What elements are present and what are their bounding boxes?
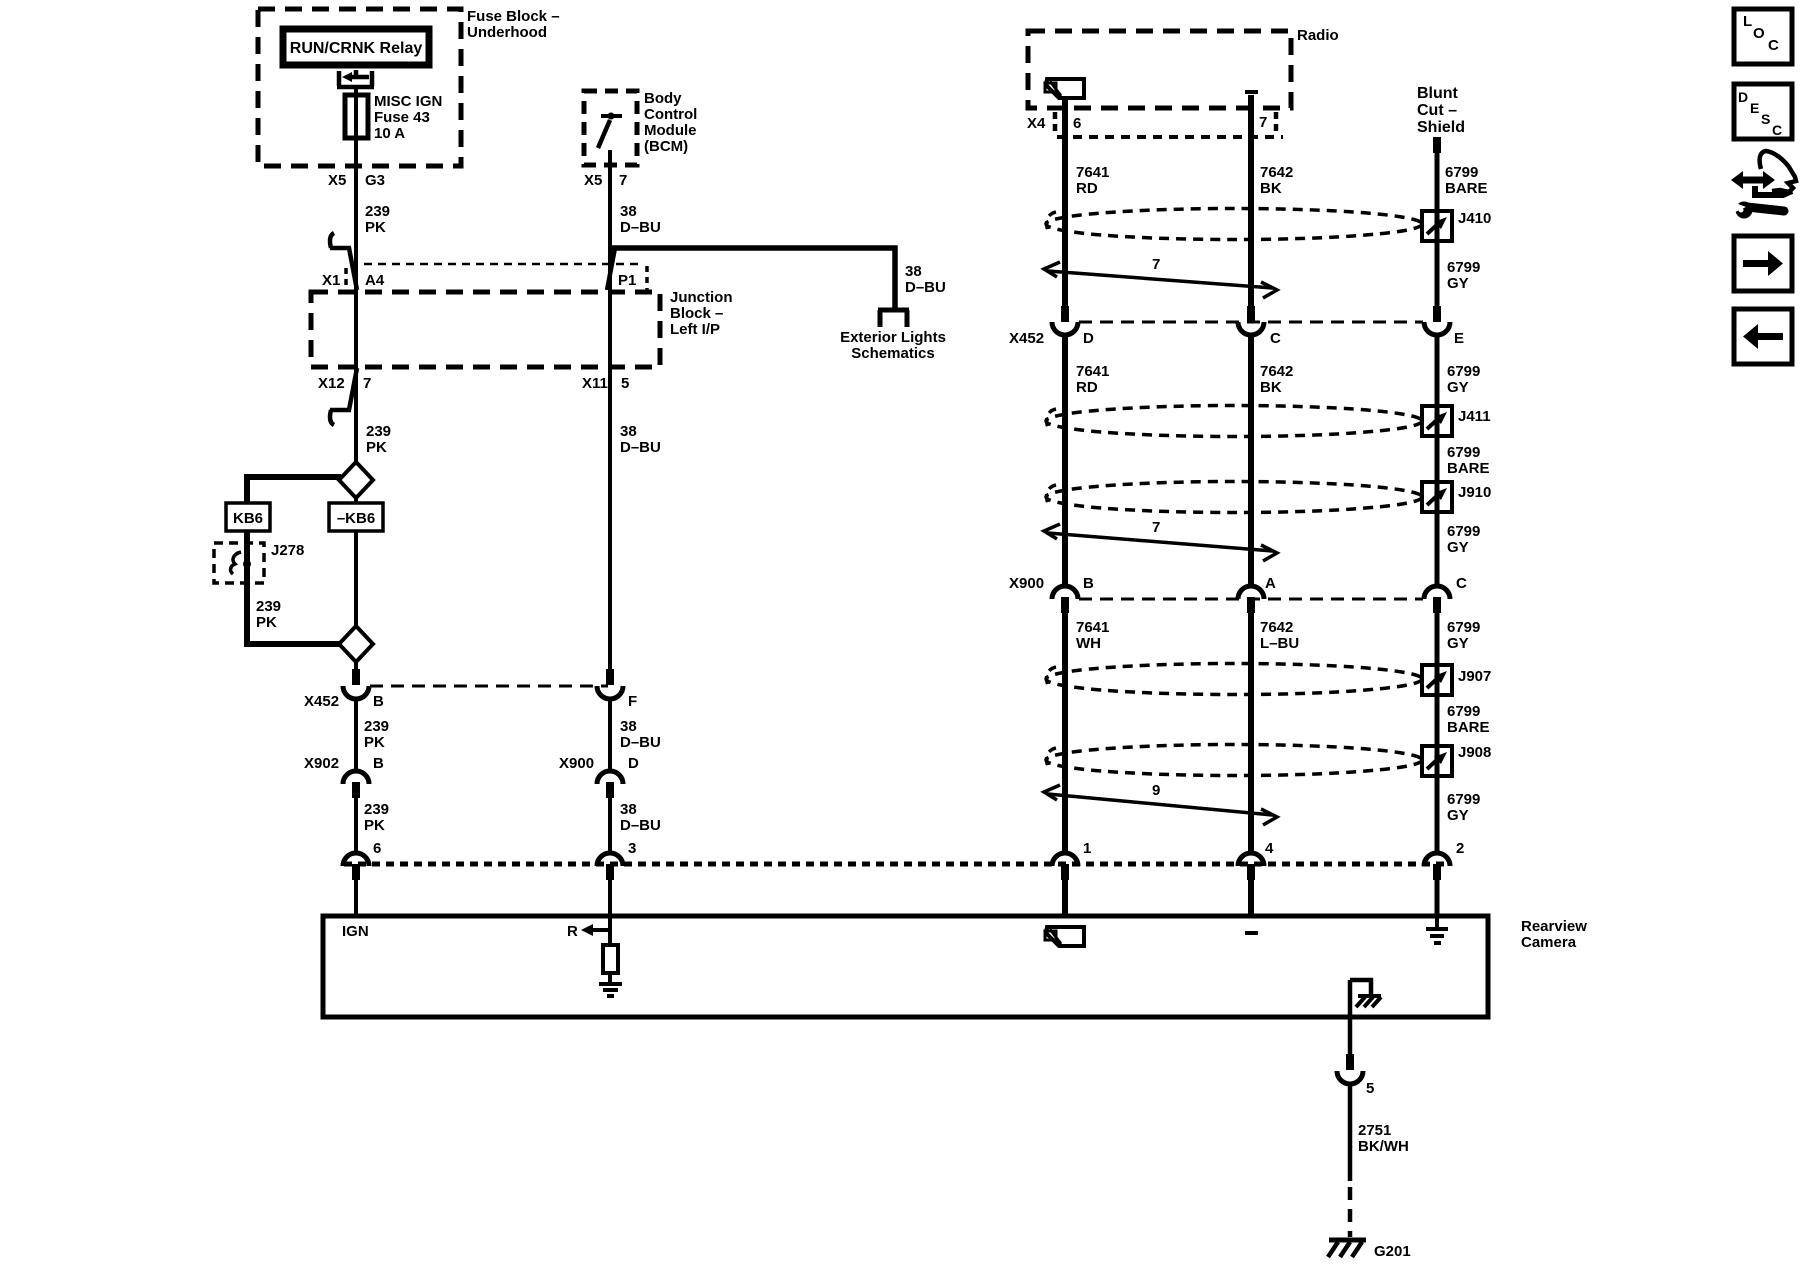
label 239 PK xyxy=(365,203,390,236)
label 6799 GY xyxy=(1447,523,1480,556)
svg-text:BARE: BARE xyxy=(1447,460,1490,477)
wire pin1 to camera box xyxy=(1062,880,1068,916)
svg-text:Junction: Junction xyxy=(670,289,733,306)
wire fuse to diamond (239 PK) xyxy=(354,138,358,463)
label 7641 RD xyxy=(1076,363,1109,396)
icon wrench xyxy=(1733,202,1784,219)
svg-text:KB6: KB6 xyxy=(233,510,263,527)
icon box LOC xyxy=(1734,9,1792,64)
crossover arrow 9 xyxy=(1044,785,1277,825)
svg-text:RD: RD xyxy=(1076,180,1098,197)
rearview camera box xyxy=(323,916,1488,1017)
label 6799 BARE xyxy=(1445,164,1488,197)
svg-text:7642: 7642 xyxy=(1260,164,1293,181)
svg-text:6799: 6799 xyxy=(1447,259,1480,276)
wire chassis ground down xyxy=(1348,980,1353,1054)
svg-text:E: E xyxy=(1750,100,1759,116)
ground symbol under resistor xyxy=(599,984,622,996)
svg-text:Fuse 43: Fuse 43 xyxy=(374,109,430,126)
svg-text:PK: PK xyxy=(365,219,386,236)
svg-text:L–BU: L–BU xyxy=(1260,635,1299,652)
connector X452 E xyxy=(1433,306,1441,322)
wire BCM down xyxy=(608,150,612,669)
wire KB6 branch bottom to diamond xyxy=(247,641,341,644)
svg-text:X11: X11 xyxy=(582,375,608,392)
svg-text:S: S xyxy=(1761,111,1770,127)
camera icon in camera box xyxy=(1045,927,1084,946)
svg-text:C: C xyxy=(1772,122,1782,138)
label P1 xyxy=(618,272,636,289)
svg-text:6799: 6799 xyxy=(1447,523,1480,540)
svg-text:IGN: IGN xyxy=(342,923,369,940)
wire pin2 to camera box xyxy=(1435,880,1440,916)
icon box arrow left xyxy=(1734,309,1792,364)
svg-text:BK: BK xyxy=(1260,379,1282,396)
svg-text:BARE: BARE xyxy=(1445,180,1488,197)
svg-text:X452: X452 xyxy=(1009,330,1044,347)
label 38 D-BU xyxy=(620,423,661,456)
twisted pair ellipse J410 xyxy=(1046,209,1422,240)
svg-text:(BCM): (BCM) xyxy=(644,138,688,155)
svg-text:B: B xyxy=(373,693,384,710)
svg-text:Body: Body xyxy=(644,90,682,107)
dotted line X1 to P1 xyxy=(350,263,644,266)
label X5 7 xyxy=(584,172,627,189)
svg-text:PK: PK xyxy=(364,734,385,751)
BCM switch symbol xyxy=(601,114,622,118)
wire 7642 BK X452 to X900 xyxy=(1248,334,1254,586)
label 6799 GY xyxy=(1447,259,1480,292)
label X4 6 7 xyxy=(1027,114,1267,132)
svg-text:10 A: 10 A xyxy=(374,125,405,142)
label J910 xyxy=(1458,484,1491,501)
label 6799 GY xyxy=(1447,791,1480,824)
splice diamond S2 xyxy=(339,626,373,662)
svg-text:3: 3 xyxy=(628,840,636,857)
twisted pair ellipse J908 xyxy=(1046,745,1422,776)
connector X902 B female cap xyxy=(343,771,369,784)
icon box arrow right xyxy=(1734,236,1792,291)
svg-text:7: 7 xyxy=(1152,256,1160,273)
label 6799 BARE xyxy=(1447,703,1490,736)
svg-text:6: 6 xyxy=(373,840,381,857)
wire 38 D-BU F to D xyxy=(608,698,612,771)
svg-text:7: 7 xyxy=(1259,114,1267,131)
svg-text:Control: Control xyxy=(644,106,697,123)
dashed wire to G201 xyxy=(1348,1187,1353,1237)
splice J278 box xyxy=(214,543,264,583)
svg-text:7642: 7642 xyxy=(1260,363,1293,380)
svg-text:X900: X900 xyxy=(559,755,594,772)
R arrow xyxy=(589,928,611,932)
svg-text:6799: 6799 xyxy=(1447,619,1480,636)
svg-text:5: 5 xyxy=(1366,1080,1374,1097)
svg-text:A4: A4 xyxy=(365,272,385,289)
label X1 A4 xyxy=(322,272,385,289)
connector pin 4 cap xyxy=(1238,853,1264,866)
svg-text:E: E xyxy=(1454,330,1464,347)
connector pin 3 cap xyxy=(597,853,623,866)
connector X452 C xyxy=(1247,306,1255,322)
svg-text:Underhood: Underhood xyxy=(467,24,547,41)
label J411 xyxy=(1458,408,1491,425)
label Fuse Block - Underhood xyxy=(467,8,560,41)
twisted pair ellipse J910 xyxy=(1046,482,1422,513)
label X12 7 xyxy=(318,375,371,392)
connector X900 B cap xyxy=(1052,586,1078,599)
svg-text:7641: 7641 xyxy=(1076,619,1109,636)
svg-text:4: 4 xyxy=(1265,840,1274,857)
splice diamond S1 xyxy=(339,462,373,498)
wire 6799 GY X452 to X900 xyxy=(1435,334,1440,586)
svg-text:F: F xyxy=(628,693,637,710)
svg-text:2751: 2751 xyxy=(1358,1122,1391,1139)
svg-text:38: 38 xyxy=(620,423,637,440)
radio box xyxy=(1028,31,1291,108)
off-page bracket exterior lights xyxy=(878,310,909,327)
chassis ground in camera box xyxy=(1350,980,1371,995)
twisted pair ellipse J411 xyxy=(1046,406,1422,437)
label Radio xyxy=(1297,27,1339,44)
svg-text:7: 7 xyxy=(1152,519,1160,536)
svg-text:D–BU: D–BU xyxy=(620,734,661,751)
connector X900 D female cap xyxy=(597,771,623,784)
label Exterior Lights Schematics xyxy=(840,329,946,362)
svg-text:Fuse Block –: Fuse Block – xyxy=(467,8,560,25)
tick X4 pin6 xyxy=(1053,112,1058,135)
wire KB6 branch left xyxy=(247,477,341,502)
svg-text:RD: RD xyxy=(1076,379,1098,396)
label Junction Block - Left I/P xyxy=(670,289,733,338)
svg-text:X4: X4 xyxy=(1027,115,1046,132)
svg-text:6799: 6799 xyxy=(1447,791,1480,808)
wire pin6 to camera box xyxy=(354,880,358,916)
svg-text:D: D xyxy=(1738,89,1748,105)
svg-text:Module: Module xyxy=(644,122,697,139)
icon box DESC xyxy=(1734,84,1792,139)
svg-text:X900: X900 xyxy=(1009,575,1044,592)
label X452 D C E xyxy=(1009,330,1464,347)
label MISC IGN Fuse 43 10 A xyxy=(374,93,442,142)
junction block left IP box xyxy=(311,292,660,367)
wire pin4 to camera box xyxy=(1248,880,1254,916)
splice J907 box xyxy=(1422,665,1452,695)
svg-text:RUN/CRNK Relay: RUN/CRNK Relay xyxy=(290,40,423,57)
svg-text:5: 5 xyxy=(621,375,629,392)
relay contact symbol xyxy=(337,70,374,87)
label R xyxy=(567,923,578,940)
splice J910 box xyxy=(1422,482,1452,512)
label J907 xyxy=(1458,668,1491,685)
label J908 xyxy=(1458,744,1491,761)
wire 2751 BK/WH xyxy=(1348,1083,1353,1181)
svg-text:X1: X1 xyxy=(322,272,340,289)
svg-text:D: D xyxy=(1083,330,1094,347)
ground G201 xyxy=(1329,1238,1366,1243)
svg-text:J907: J907 xyxy=(1458,668,1491,685)
svg-text:X5: X5 xyxy=(584,172,602,189)
resistor in camera xyxy=(603,945,618,973)
svg-text:GY: GY xyxy=(1447,539,1469,556)
svg-text:J908: J908 xyxy=(1458,744,1491,761)
svg-text:7641: 7641 xyxy=(1076,164,1109,181)
svg-text:Cut –: Cut – xyxy=(1417,102,1457,119)
svg-text:PK: PK xyxy=(256,614,277,631)
connector pin 1 cap xyxy=(1052,853,1078,866)
label J410 xyxy=(1458,210,1491,227)
tick P1 xyxy=(645,266,649,290)
label X902 B xyxy=(304,755,384,772)
crossover arrow 7 mid xyxy=(1044,524,1277,561)
svg-text:239: 239 xyxy=(256,598,281,615)
wire 7642 L-BU X900 to pin4 xyxy=(1248,613,1254,853)
label Blunt Cut - Shield xyxy=(1417,85,1465,136)
svg-text:G201: G201 xyxy=(1374,1243,1411,1260)
wire 7641 WH X900 to pin1 xyxy=(1062,613,1068,853)
svg-text:D–BU: D–BU xyxy=(905,279,946,296)
connector X900 A cap xyxy=(1238,586,1264,599)
svg-text:MISC IGN: MISC IGN xyxy=(374,93,442,110)
BCM box xyxy=(584,91,637,165)
svg-text:P1: P1 xyxy=(618,272,636,289)
dashed connector line X452 left xyxy=(370,685,608,688)
svg-text:X452: X452 xyxy=(304,693,339,710)
label X5 G3 xyxy=(328,172,385,189)
wire 6799 GY X900 to pin2 xyxy=(1435,613,1440,853)
svg-text:38: 38 xyxy=(620,718,637,735)
svg-text:7: 7 xyxy=(363,375,371,392)
blunt cut stub xyxy=(1433,137,1441,153)
svg-text:38: 38 xyxy=(620,801,637,818)
svg-text:Schematics: Schematics xyxy=(851,345,934,362)
svg-text:J410: J410 xyxy=(1458,210,1491,227)
splice J278 curl xyxy=(231,552,241,574)
wire diamond2 to X452 xyxy=(354,662,358,670)
label 38 D-BU branch xyxy=(905,263,946,296)
svg-text:Rearview: Rearview xyxy=(1521,918,1587,935)
svg-text:GY: GY xyxy=(1447,807,1469,824)
wire 38 D-BU D to pin3 xyxy=(608,798,612,853)
svg-text:L: L xyxy=(1743,13,1752,30)
label X900 B A C xyxy=(1009,575,1467,592)
connector pin 2 cap xyxy=(1424,853,1450,866)
fuse block underhood box xyxy=(258,9,461,166)
wire 7642 BK radio to X452 xyxy=(1248,95,1254,306)
svg-text:BK/WH: BK/WH xyxy=(1358,1138,1409,1155)
svg-text:Left I/P: Left I/P xyxy=(670,321,720,338)
svg-text:X902: X902 xyxy=(304,755,339,772)
svg-text:9: 9 xyxy=(1152,782,1160,799)
svg-text:O: O xyxy=(1753,25,1765,42)
label 6799 BARE xyxy=(1447,444,1490,477)
svg-text:239: 239 xyxy=(366,423,391,440)
svg-text:WH: WH xyxy=(1076,635,1101,652)
svg-text:C: C xyxy=(1768,37,1779,54)
svg-text:Block –: Block – xyxy=(670,305,723,322)
fuse F43 MISC IGN 10A xyxy=(345,95,368,138)
svg-text:GY: GY xyxy=(1447,275,1469,292)
svg-text:D–BU: D–BU xyxy=(620,817,661,834)
connector X452 D xyxy=(1061,306,1069,322)
connector pin 5 female xyxy=(1337,1071,1363,1084)
svg-text:J910: J910 xyxy=(1458,484,1491,501)
svg-text:PK: PK xyxy=(366,439,387,456)
crossover arrow 7 top xyxy=(1044,262,1277,298)
label 7642 BK xyxy=(1260,363,1293,396)
svg-text:239: 239 xyxy=(365,203,390,220)
svg-text:J411: J411 xyxy=(1458,408,1491,425)
svg-text:–KB6: –KB6 xyxy=(337,510,375,527)
svg-text:7641: 7641 xyxy=(1076,363,1109,380)
connector X12 hook symbol xyxy=(330,368,357,425)
wire 7641 RD X452 to X900 xyxy=(1062,334,1068,586)
connector P1 jog xyxy=(607,248,615,290)
svg-text:X5: X5 xyxy=(328,172,346,189)
twisted pair ellipse J907 xyxy=(1046,664,1422,695)
connector X902 B male pin xyxy=(352,782,360,798)
svg-text:B: B xyxy=(1083,575,1094,592)
label 38 D-BU xyxy=(620,203,661,236)
label 239 PK xyxy=(366,423,391,456)
svg-text:D–BU: D–BU xyxy=(620,219,661,236)
svg-text:X12: X12 xyxy=(318,375,345,392)
label pins 1 4 2 xyxy=(1083,840,1464,857)
svg-text:1: 1 xyxy=(1083,840,1091,857)
svg-text:239: 239 xyxy=(364,718,389,735)
label 7642 BK xyxy=(1260,164,1293,197)
wire 239 PK X452 to X902 xyxy=(354,698,358,771)
svg-text:C: C xyxy=(1270,330,1281,347)
splice J908 box xyxy=(1422,746,1452,776)
wire to resistor xyxy=(608,916,612,945)
wire 239 PK X902 to pin6 xyxy=(354,798,358,853)
svg-text:C: C xyxy=(1456,575,1467,592)
camera icon in radio xyxy=(1045,79,1084,98)
svg-text:R: R xyxy=(567,923,578,940)
svg-text:2: 2 xyxy=(1456,840,1464,857)
svg-text:A: A xyxy=(1265,575,1276,592)
fusible link KB6 box xyxy=(226,503,270,531)
relay K (RUN/CRNK Relay) xyxy=(283,29,429,65)
dashed connector line X4 xyxy=(1057,135,1283,139)
svg-text:6799: 6799 xyxy=(1447,363,1480,380)
svg-text:6799: 6799 xyxy=(1445,164,1478,181)
wire branch to exterior lights xyxy=(611,248,895,312)
connector X900 C cap xyxy=(1424,586,1450,599)
svg-text:6799: 6799 xyxy=(1447,444,1480,461)
svg-text:7642: 7642 xyxy=(1260,619,1293,636)
label 6799 GY xyxy=(1447,363,1480,396)
connector pin 6 cap xyxy=(343,853,369,866)
svg-text:D–BU: D–BU xyxy=(620,439,661,456)
svg-text:GY: GY xyxy=(1447,379,1469,396)
svg-text:G3: G3 xyxy=(365,172,385,189)
wire KB6 to J278 xyxy=(244,531,250,644)
minus pin radio xyxy=(1245,90,1258,94)
label IGN xyxy=(342,923,369,940)
svg-text:BARE: BARE xyxy=(1447,719,1490,736)
label 7641 WH xyxy=(1076,619,1109,652)
label 7642 L-BU xyxy=(1260,619,1299,652)
svg-text:Radio: Radio xyxy=(1297,27,1339,44)
connector X452 B female xyxy=(343,686,369,699)
splice J411 box xyxy=(1422,406,1452,436)
svg-text:Blunt: Blunt xyxy=(1417,85,1459,102)
wire 6799 shield top xyxy=(1435,152,1440,306)
wire diamond1 to -KB6 xyxy=(354,498,358,503)
label J278 xyxy=(271,542,304,559)
svg-text:D: D xyxy=(628,755,639,772)
wire pin3 to camera box xyxy=(608,880,612,916)
label X452 B xyxy=(304,693,384,710)
tick X1 xyxy=(344,268,348,290)
svg-text:38: 38 xyxy=(620,203,637,220)
dashed connector line X900 xyxy=(1079,598,1423,601)
wire 7641 RD radio to X452 xyxy=(1062,97,1068,306)
svg-text:239: 239 xyxy=(364,801,389,818)
label Body Control Module (BCM) xyxy=(644,90,697,155)
svg-text:6: 6 xyxy=(1073,115,1081,132)
heavy dotted harness line bottom xyxy=(344,862,1450,867)
svg-text:7: 7 xyxy=(619,172,627,189)
svg-text:PK: PK xyxy=(364,817,385,834)
label 239 PK xyxy=(256,598,281,631)
label Rearview Camera xyxy=(1521,918,1587,951)
connector X1 hook symbol xyxy=(330,233,357,290)
ground symbol shield in camera xyxy=(1435,916,1439,929)
svg-text:38: 38 xyxy=(905,263,922,280)
minus pin camera xyxy=(1245,931,1258,935)
svg-text:Exterior Lights: Exterior Lights xyxy=(840,329,946,346)
fusible link -KB6 box xyxy=(329,503,383,531)
svg-text:GY: GY xyxy=(1447,635,1469,652)
wire resistor to ground xyxy=(608,973,612,984)
dashed connector line X452 right xyxy=(1079,321,1423,324)
svg-text:BK: BK xyxy=(1260,180,1282,197)
connector X900 F male pin xyxy=(606,669,614,685)
connector pin 5 male xyxy=(1346,1054,1354,1070)
label 7641 RD xyxy=(1076,164,1109,197)
svg-text:Shield: Shield xyxy=(1417,119,1465,136)
svg-text:Camera: Camera xyxy=(1521,934,1577,951)
svg-text:6799: 6799 xyxy=(1447,703,1480,720)
icon tools xyxy=(1731,151,1796,195)
svg-text:B: B xyxy=(373,755,384,772)
wire -KB6 to diamond2 xyxy=(354,531,358,627)
connector X452 B male pin xyxy=(352,669,360,685)
wire relay to fuse xyxy=(354,87,358,97)
label X11 5 xyxy=(582,375,629,392)
label 6799 GY xyxy=(1447,619,1480,652)
splice J410 box xyxy=(1422,211,1452,241)
tick X4 pin7 xyxy=(1274,112,1279,134)
svg-text:J278: J278 xyxy=(271,542,304,559)
